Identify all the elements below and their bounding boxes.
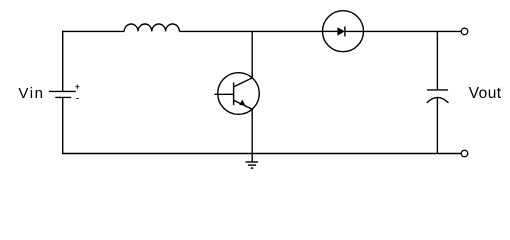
wire: output branch lower (capacitor to bottom rail) xyxy=(436,98,438,154)
wire: left rail upper (top rail to battery) xyxy=(62,31,64,92)
wire: top rail left (battery + to inductor) xyxy=(62,30,124,32)
battery minus mark xyxy=(76,98,79,100)
wire: output branch upper (top rail to capacitor) xyxy=(436,31,438,90)
battery V1 short plate xyxy=(55,96,71,98)
svg-text:Vin: Vin xyxy=(18,85,44,102)
wire: bottom rail xyxy=(62,153,461,155)
capacitor C1 xyxy=(427,90,449,103)
terminal: Vout - xyxy=(461,150,468,157)
diode D1 xyxy=(323,11,364,52)
ground xyxy=(246,162,259,168)
wire: top rail right (diode to output terminal) xyxy=(364,30,462,32)
battery V1 long plate xyxy=(49,90,76,92)
battery plus mark xyxy=(75,85,79,89)
wire: top rail middle (inductor to diode) xyxy=(179,30,322,32)
wire: emitter to ground xyxy=(251,109,253,162)
terminal: Vout + xyxy=(461,28,468,35)
svg-text:Vout: Vout xyxy=(469,85,502,102)
transistor Q1 xyxy=(214,73,259,115)
inductor L1 xyxy=(124,24,179,31)
wire: collector riser (top rail to transistor) xyxy=(251,31,253,78)
wire: left rail lower (battery to bottom rail) xyxy=(62,97,64,154)
